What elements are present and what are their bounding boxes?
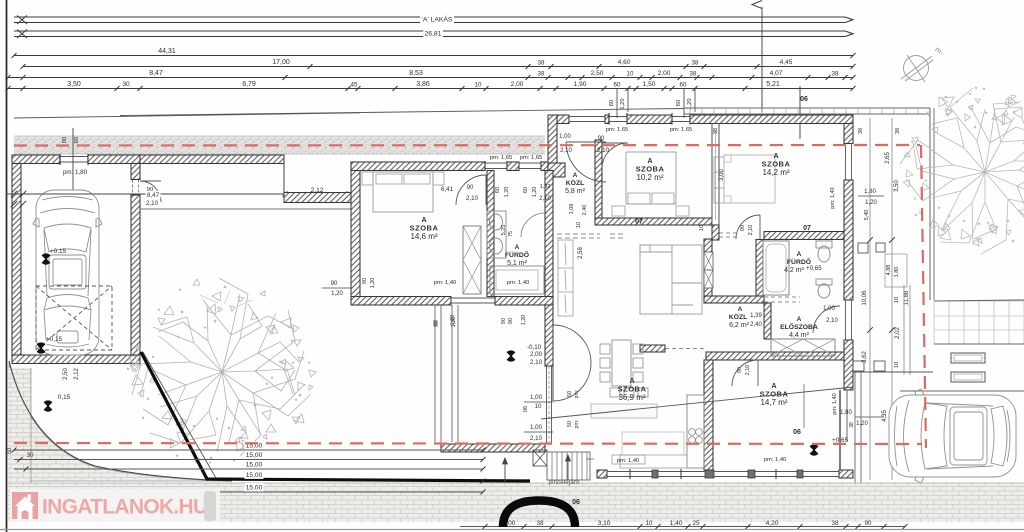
fence post square b <box>876 243 885 252</box>
svg-text:36,9 m²: 36,9 m² <box>618 393 645 402</box>
shaft X boxes <box>704 252 713 270</box>
svg-text:60: 60 <box>614 82 621 89</box>
svg-text:pm: 1,65: pm: 1,65 <box>606 127 629 133</box>
svg-text:1,20: 1,20 <box>532 187 538 198</box>
partition: kitchen wall x704 lower <box>704 360 713 470</box>
svg-text:90: 90 <box>467 185 474 191</box>
door arc szoba 14.7 <box>732 360 758 386</box>
svg-text:2,02: 2,02 <box>895 327 901 339</box>
svg-text:10: 10 <box>475 82 482 89</box>
door arc 14.2 <box>736 215 760 239</box>
wire: gravel strip edges <box>14 135 545 137</box>
tree north-east <box>900 87 1024 254</box>
svg-text:5,21: 5,21 <box>766 81 780 88</box>
node: level -0,10 right <box>918 447 926 455</box>
partition: wall 14.2 bottom <box>764 232 844 240</box>
svg-text:15,00: 15,00 <box>246 452 263 459</box>
svg-text:15,00: 15,00 <box>246 485 263 492</box>
svg-text:1,20: 1,20 <box>504 187 510 198</box>
svg-text:2,40: 2,40 <box>750 322 762 328</box>
svg-text:0,15: 0,15 <box>58 394 71 401</box>
svg-text:15,00: 15,00 <box>246 462 263 469</box>
window pm:1,65 b <box>519 162 541 164</box>
wire: red dashed property line vertical right <box>921 145 926 448</box>
east window pm:1,40 <box>845 144 847 181</box>
wire: left property boundary line <box>6 0 8 532</box>
kitchen low cabinet <box>620 455 687 468</box>
wall stub below shaft <box>712 225 719 240</box>
garage bottom wall <box>12 355 140 364</box>
svg-text:15,00: 15,00 <box>246 472 263 479</box>
bidet furdo 4.2 <box>816 279 832 298</box>
svg-text:90: 90 <box>740 225 746 231</box>
bathroom sinks <box>487 211 506 258</box>
toilet furdo 4.2 <box>816 241 832 262</box>
svg-text:38: 38 <box>690 71 697 78</box>
entry door leaf and arc <box>566 141 606 143</box>
bed square szoba 14.2 <box>724 155 775 203</box>
label: 26,81 <box>423 29 443 38</box>
svg-text:2,10: 2,10 <box>530 359 543 366</box>
svg-text:2,50: 2,50 <box>63 368 69 380</box>
south window sill b <box>658 471 705 473</box>
svg-text:pm: 1,40: pm: 1,40 <box>764 457 787 463</box>
french door arcs living room <box>553 325 591 363</box>
svg-text:1,20: 1,20 <box>370 278 376 289</box>
watermark bar <box>10 489 220 522</box>
svg-text:90: 90 <box>598 136 605 142</box>
wire: fence vertical right <box>929 108 931 300</box>
svg-text:6,79: 6,79 <box>242 81 256 88</box>
svg-text:1,80: 1,80 <box>894 267 900 278</box>
wire: road line pair 2 <box>14 30 845 32</box>
plus mark <box>586 458 594 460</box>
svg-text:17,00: 17,00 <box>272 59 290 66</box>
cellar steps <box>547 452 590 480</box>
node: level point +0.15 <box>42 255 50 263</box>
south wall pier c <box>705 470 714 478</box>
svg-text:1,90: 1,90 <box>574 81 587 88</box>
partition: kozl east wall / 10.2 west <box>595 140 602 222</box>
car C1 in garage (top view) <box>33 190 102 355</box>
house north wall left section <box>351 162 485 171</box>
svg-text:30: 30 <box>27 453 34 459</box>
south window sill d <box>755 471 797 473</box>
tree twigs faint near yard tree <box>200 290 252 306</box>
door arc furdo5.1 <box>521 213 545 237</box>
svg-text:25: 25 <box>693 520 700 527</box>
closet strip szoba 14.2 <box>714 157 724 203</box>
wire: witness line x804 <box>803 384 805 428</box>
svg-text:38: 38 <box>538 60 545 67</box>
svg-text:pm: 1,40: pm: 1,40 <box>830 187 836 208</box>
node: boundary tie ticks <box>11 191 17 197</box>
svg-text:1,20: 1,20 <box>451 317 457 328</box>
svg-text:2,65: 2,65 <box>885 152 891 164</box>
bed in szoba 10.2 <box>626 152 676 204</box>
north wall east part <box>690 115 853 124</box>
svg-text:1,20: 1,20 <box>331 291 343 297</box>
svg-text:14,7 m²: 14,7 m² <box>760 398 787 407</box>
svg-text:90: 90 <box>865 520 872 527</box>
svg-text:4,45: 4,45 <box>780 59 793 66</box>
svg-text:4,2 m²: 4,2 m² <box>784 267 805 274</box>
wire: red dashed property line horizontal bottom <box>14 443 922 444</box>
svg-text:1,50: 1,50 <box>643 81 656 88</box>
svg-text:6,2 m²: 6,2 m² <box>729 322 750 329</box>
svg-text:1,20: 1,20 <box>620 98 626 109</box>
svg-text:A: A <box>797 251 802 258</box>
node: level +0,65 <box>810 446 818 454</box>
svg-text:07: 07 <box>803 225 811 232</box>
wire: terrain contour lines <box>14 113 360 118</box>
svg-text:1,20: 1,20 <box>865 200 877 206</box>
svg-text:90: 90 <box>434 321 440 327</box>
north wall piece between windows <box>507 162 519 171</box>
wire: witness vertical x892 <box>891 118 893 480</box>
dining chairs bottom row <box>610 388 620 397</box>
partition: eloszoba/kozl2 bottom wall <box>706 352 844 360</box>
partition: bottom wall 10.2 <box>595 218 712 225</box>
svg-text:A: A <box>573 172 578 179</box>
svg-text:+0,65: +0,65 <box>806 265 822 272</box>
driveway curve <box>9 361 232 481</box>
svg-text:1,00: 1,00 <box>559 134 571 140</box>
svg-text:38: 38 <box>832 520 839 527</box>
svg-text:pm:: pm: <box>574 390 580 399</box>
node: level 0,15 yard <box>44 402 52 410</box>
wire: dimension line 3,50 row <box>8 88 853 90</box>
svg-text:2,00: 2,00 <box>658 70 671 77</box>
svg-text:'A' LAKÁS: 'A' LAKÁS <box>422 15 453 24</box>
window pm:1,65 d <box>672 116 690 118</box>
svg-text:+0,15: +0,15 <box>50 248 67 255</box>
left boundary brick strip <box>8 368 31 483</box>
window pm:1,65 c <box>609 116 627 118</box>
wire: drive edge lines <box>854 372 856 500</box>
svg-text:1,20: 1,20 <box>856 421 868 427</box>
svg-text:11,88: 11,88 <box>904 290 910 305</box>
wire: section marker 06 vertical top <box>761 7 763 112</box>
garage left wall <box>12 164 21 364</box>
svg-text:pm: 1,40: pm: 1,40 <box>617 458 640 464</box>
wire: road line pair 1 <box>14 16 845 18</box>
east wall thin continuation to south <box>839 390 841 470</box>
svg-text:10: 10 <box>576 222 582 228</box>
svg-text:2,10: 2,10 <box>530 435 543 442</box>
svg-text:-0,10: -0,10 <box>527 344 542 351</box>
svg-text:4,07: 4,07 <box>770 70 783 77</box>
garage right wall lower <box>131 195 140 355</box>
svg-text:26,81: 26,81 <box>424 31 441 38</box>
garage top wall right segment <box>88 155 140 164</box>
svg-text:3,50: 3,50 <box>894 180 900 192</box>
svg-text:2,00: 2,00 <box>530 351 543 358</box>
thick black arc annotation <box>503 501 575 528</box>
svg-text:2,00: 2,00 <box>511 81 524 88</box>
svg-text:KÖZL: KÖZL <box>566 178 585 187</box>
north fence wall to carport <box>140 155 284 164</box>
svg-text:06: 06 <box>793 429 801 436</box>
svg-text:38: 38 <box>832 71 839 78</box>
label: 'A' LAKAS <box>420 15 454 24</box>
svg-text:06: 06 <box>800 96 808 103</box>
door arc szoba 10.2 <box>602 143 628 169</box>
svg-text:3,00: 3,00 <box>719 169 725 181</box>
garage side door dashed reveal <box>132 180 134 196</box>
house west wall <box>351 162 360 305</box>
svg-text:2,10: 2,10 <box>146 200 159 207</box>
south window sill c <box>714 471 748 473</box>
dining chair left 2 <box>600 358 610 368</box>
svg-text:45: 45 <box>351 82 358 89</box>
brick area under curve <box>9 363 230 481</box>
svg-text:pm: 1,40: pm: 1,40 <box>832 393 838 414</box>
svg-text:A: A <box>797 316 802 323</box>
wire: witness line at garage gate <box>72 128 74 200</box>
partition: bottom wall of 14.6 row <box>351 297 451 306</box>
svg-text:90: 90 <box>362 278 368 284</box>
node: level point -0,10 <box>507 352 515 360</box>
svg-text:50: 50 <box>567 421 573 427</box>
watermark house icon <box>12 492 38 519</box>
node: level point +0.15 b <box>37 344 45 352</box>
wire: dashed beam lines corridor <box>557 233 600 235</box>
wardrobe X strip szoba14.6 <box>463 226 481 294</box>
svg-text:10: 10 <box>535 404 542 410</box>
dining chair right 3 <box>633 372 643 382</box>
stove burners <box>689 429 703 444</box>
svg-text:2,50: 2,50 <box>591 70 604 77</box>
bathtub furdo 4.2 <box>763 241 789 295</box>
house north wall right section west part <box>557 115 569 124</box>
garage right wall upper <box>131 164 140 180</box>
svg-text:2,58: 2,58 <box>578 247 584 259</box>
svg-text:90: 90 <box>331 281 338 287</box>
parking bumper bar 2 <box>951 372 985 382</box>
svg-text:1,80: 1,80 <box>840 410 852 416</box>
wire: fence lower line <box>140 208 351 210</box>
svg-text:6,41: 6,41 <box>441 186 454 193</box>
svg-text:44,31: 44,31 <box>158 48 176 55</box>
fence posts south-east <box>853 361 864 371</box>
svg-text:pm: 1,80: pm: 1,80 <box>63 169 88 176</box>
svg-text:38: 38 <box>713 128 719 134</box>
svg-text:2,10: 2,10 <box>745 365 751 376</box>
wardrobe strip kozl <box>558 240 573 316</box>
svg-text:A: A <box>515 244 520 251</box>
node: break mark road 2 <box>17 30 27 39</box>
wire: witness vertical x904 <box>903 285 905 375</box>
wire: parking area edge <box>853 371 933 373</box>
kitchen counter vertical <box>687 395 704 468</box>
svg-text:3,10: 3,10 <box>598 520 611 527</box>
garage top wall left segment <box>12 155 60 164</box>
svg-text:75: 75 <box>508 231 514 237</box>
door arc eloszoba entry <box>813 306 840 333</box>
svg-text:60: 60 <box>74 137 80 143</box>
partition: shaft wall segment below <box>704 239 712 303</box>
svg-text:2,10: 2,10 <box>560 148 572 154</box>
svg-text:3,86: 3,86 <box>416 81 430 88</box>
svg-text:50: 50 <box>567 391 573 397</box>
door arc kozl to szoba14.6 <box>456 175 486 205</box>
svg-text:38: 38 <box>537 520 544 527</box>
svg-text:1,00: 1,00 <box>823 306 835 312</box>
svg-text:1,00: 1,00 <box>530 424 543 431</box>
svg-text:90: 90 <box>501 318 507 324</box>
kitchen sink piece <box>622 432 684 455</box>
wire: second splay line <box>143 352 216 478</box>
wire: long dimension line 8,47 / 2,12 at y194 <box>6 193 351 195</box>
svg-text:38: 38 <box>692 60 699 67</box>
svg-text:5,1 m²: 5,1 m² <box>507 260 528 267</box>
dining chair left 1 <box>600 344 610 354</box>
svg-text:10,06: 10,06 <box>862 290 868 306</box>
cellar stair box <box>533 450 547 466</box>
svg-text:14,6 m²: 14,6 m² <box>410 232 437 241</box>
svg-text:1,40: 1,40 <box>670 520 683 527</box>
entry porch opening <box>569 116 605 118</box>
svg-text:5,25: 5,25 <box>501 225 507 236</box>
south wall pier e <box>797 470 803 478</box>
garage manoeuvre area dashed box <box>36 286 112 350</box>
wire: fence north-east double line <box>684 107 930 109</box>
wire: dimension line 44,31 <box>14 55 853 57</box>
watermark end cap <box>204 491 216 521</box>
svg-text:4,20: 4,20 <box>766 520 779 527</box>
partition: bottom wall furdo2 / kozl2 <box>704 296 764 303</box>
fence wall segment mid <box>284 193 351 203</box>
wire: fence post line <box>283 163 285 203</box>
svg-text:07: 07 <box>635 219 643 226</box>
south window sill a <box>607 471 652 473</box>
partition: wall stub left of kozl2 <box>640 345 665 352</box>
partition: shaft wall 10.2/14.2 <box>712 124 719 227</box>
shower tray <box>490 266 544 294</box>
house step wall (jog) <box>548 115 557 170</box>
window pm:1,65 a <box>485 162 507 164</box>
wire: path edge lines <box>434 305 436 442</box>
car C2 parked right (top view, facing left) <box>889 389 1016 483</box>
dashed line kozl2 floor edge <box>665 348 706 350</box>
svg-text:1,20: 1,20 <box>521 315 527 326</box>
svg-text:8,53: 8,53 <box>409 70 423 77</box>
dining table <box>612 340 631 386</box>
house east wall lower <box>844 340 853 390</box>
svg-text:pm: 1,65: pm: 1,65 <box>520 155 543 161</box>
garage gate opening pm:1,80 <box>60 156 88 158</box>
south wall pier d <box>748 470 755 478</box>
svg-text:8,47: 8,47 <box>147 192 160 199</box>
dining chair left 3 <box>600 372 610 382</box>
svg-text:pm: 1,40: pm: 1,40 <box>434 280 457 286</box>
wire: bottom dimension line <box>460 526 905 528</box>
inner corner wall block <box>548 163 565 177</box>
svg-text:pm: 1,65: pm: 1,65 <box>490 155 513 161</box>
pillar box right <box>885 254 907 287</box>
svg-text:KÖZL: KÖZL <box>729 312 748 321</box>
wire: stair arrow <box>567 455 569 480</box>
svg-text:38: 38 <box>858 128 864 134</box>
corner sofa living room <box>640 245 702 314</box>
svg-text:38: 38 <box>538 71 545 78</box>
wire: dimension line 17,00 row <box>23 66 853 68</box>
wire: witness vertical x870 <box>869 118 871 480</box>
svg-text:10: 10 <box>894 297 900 303</box>
house east wall mid <box>844 180 853 300</box>
south wall corner east <box>839 470 853 478</box>
window sill bottom 14.6 <box>451 297 495 299</box>
svg-text:+0,15: +0,15 <box>46 336 63 343</box>
svg-text:4,60: 4,60 <box>618 59 631 66</box>
dining chair right 1 <box>633 344 643 354</box>
svg-text:2,40: 2,40 <box>582 205 588 216</box>
svg-text:pm:: pm: <box>574 420 580 429</box>
garage side door arc <box>140 181 161 202</box>
svg-text:38: 38 <box>895 128 901 134</box>
wire: witness line 60/1,20 right <box>683 89 685 119</box>
svg-text:1,00: 1,00 <box>530 394 543 401</box>
svg-text:14,2 m²: 14,2 m² <box>762 168 789 177</box>
partition: eloszoba west wall <box>764 303 771 339</box>
north wall mid <box>627 115 672 124</box>
parking bumper bar 1 <box>951 353 985 363</box>
svg-text:pincelejáró: pincelejáró <box>549 479 580 486</box>
wire: threshold dashes 14.2 <box>712 232 736 234</box>
svg-text:06: 06 <box>523 406 529 412</box>
svg-text:06: 06 <box>572 499 580 506</box>
tree big yard <box>127 278 316 463</box>
paving grid right <box>934 301 1024 344</box>
wire: red dashed property line horizontal top <box>14 144 920 147</box>
svg-text:2,10: 2,10 <box>539 196 551 202</box>
svg-text:1,32: 1,32 <box>540 184 551 190</box>
bed in szoba 14.6 <box>373 172 433 212</box>
svg-text:60: 60 <box>680 82 687 89</box>
svg-text:A: A <box>738 306 743 313</box>
entry closet X <box>771 339 835 356</box>
svg-text:pm: 1,40: pm: 1,40 <box>507 280 530 286</box>
thick splay line <box>141 352 530 481</box>
svg-text:ELŐSZOBA: ELŐSZOBA <box>780 322 818 331</box>
house east wall upper <box>844 124 853 144</box>
svg-text:60: 60 <box>676 100 682 106</box>
node: break mark road 1 <box>17 16 27 25</box>
svg-text:60: 60 <box>495 187 501 193</box>
svg-text:4,35: 4,35 <box>882 410 888 422</box>
partition: szoba14.6/furdo wall <box>487 171 494 297</box>
svg-text:INGATLANOK.HU: INGATLANOK.HU <box>42 496 208 519</box>
bottom wall under bath <box>495 297 553 306</box>
svg-text:5,8 m²: 5,8 m² <box>565 188 586 195</box>
svg-text:2,10: 2,10 <box>466 195 479 202</box>
bottom pavement brick band <box>8 483 1024 522</box>
label 15,00 thick <box>244 471 263 479</box>
svg-text:8,47: 8,47 <box>149 70 163 77</box>
partition: furdo east wall <box>545 171 553 306</box>
svg-text:38: 38 <box>849 422 855 428</box>
svg-text:3,50: 3,50 <box>67 81 81 88</box>
svg-text:90: 90 <box>508 318 514 324</box>
svg-text:80: 80 <box>62 137 68 143</box>
svg-text:pm: 1,65: pm: 1,65 <box>670 127 693 133</box>
svg-text:1,08: 1,08 <box>569 204 575 215</box>
wire: arrow at 15,00 lines <box>504 458 506 482</box>
svg-text:60: 60 <box>609 100 615 106</box>
svg-text:10: 10 <box>894 362 900 368</box>
svg-text:10: 10 <box>627 71 634 78</box>
